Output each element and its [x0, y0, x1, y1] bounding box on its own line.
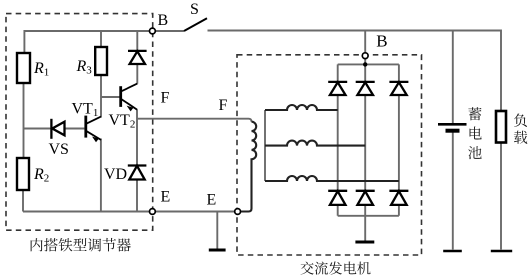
- ground between boxes: [209, 249, 226, 252]
- wire: rectifier top bus: [338, 63, 399, 65]
- wire: battery bottom lead: [452, 132, 454, 250]
- diode above VT2: [128, 51, 147, 64]
- wire: battery top drop: [452, 31, 454, 124]
- wire: F wire from VT2 emitter to field coil: [137, 119, 252, 122]
- wire: generator ground stub: [364, 216, 366, 241]
- generator dashed box 交流发电机: [237, 55, 422, 255]
- regulator dashed box 内搭铁型调节器: [6, 14, 153, 231]
- wire: zener right lead to VT1 base: [65, 128, 85, 130]
- node B generator terminal: [362, 53, 368, 59]
- svg-text:B: B: [376, 32, 387, 51]
- svg-text:S: S: [190, 1, 199, 18]
- wire: B terminal to rectifier bus: [364, 59, 366, 65]
- rectifier diode D2 top: [356, 82, 375, 95]
- wire: rectifier column 3: [398, 64, 400, 215]
- junction dot rectifier B: [363, 62, 367, 66]
- wire: zener left lead: [24, 128, 51, 130]
- wire: R1-R2 divider: [23, 83, 25, 158]
- node E generator terminal: [235, 209, 241, 215]
- svg-text:B: B: [158, 12, 169, 29]
- wire: E wire between boxes: [155, 211, 235, 213]
- resistor R2: [17, 158, 29, 190]
- wire: R3 bottom to VT1 collector: [100, 75, 102, 118]
- rectifier diode D4 bottom: [328, 191, 347, 205]
- label 内搭铁型调节器: [31, 238, 131, 252]
- wire: R3 top stub: [100, 31, 102, 47]
- wire: diode to VT2 collector: [136, 64, 138, 84]
- wire: regulator top rail: [24, 31, 149, 53]
- transistor VT1: [86, 116, 101, 143]
- rectifier diode D3 top: [389, 82, 408, 95]
- rectifier diode D6 bottom: [389, 191, 408, 205]
- stator phase 2 winding: [265, 141, 365, 146]
- load resistor 负载: [496, 111, 506, 143]
- wire: VT1 emitter down to E rail: [100, 139, 102, 212]
- rectifier diode D1 top: [328, 82, 347, 95]
- wire: B rail to diode anode column: [136, 31, 138, 51]
- wire: stator star bus: [264, 110, 266, 181]
- transistor VT2: [121, 84, 138, 112]
- wire: VT2 emitter down through VD to E rail: [136, 109, 138, 211]
- battery 蓄电池 plates: [438, 124, 467, 130]
- node E regulator terminal: [150, 209, 156, 215]
- svg-text:E: E: [161, 188, 171, 205]
- switch S blade: [184, 18, 207, 31]
- wire: load bottom lead: [500, 143, 502, 250]
- ground generator internal: [355, 241, 374, 244]
- node B regulator terminal: [150, 28, 156, 34]
- wire: switch left lead from B: [155, 30, 184, 32]
- ground load: [491, 250, 512, 253]
- svg-text:VD: VD: [104, 166, 127, 183]
- label 负载: [514, 114, 527, 144]
- wire: R2 bottom: [22, 190, 24, 212]
- wire: mid ground stub: [216, 212, 218, 249]
- diode VD: [128, 166, 147, 180]
- svg-text:F: F: [219, 97, 228, 114]
- ground battery: [443, 250, 462, 253]
- resistor R1: [17, 53, 30, 83]
- wire: VT2 base lead: [101, 96, 120, 98]
- wire: rectifier column 1: [337, 64, 339, 215]
- resistor R3: [95, 47, 107, 75]
- label 蓄电池: [468, 107, 481, 159]
- stator phase 1 winding: [265, 105, 338, 110]
- svg-text:E: E: [207, 192, 217, 209]
- stator phase 3 winding: [265, 176, 399, 181]
- wire: rectifier bottom bus: [338, 215, 399, 217]
- wire: regulator bottom E rail: [23, 211, 150, 213]
- wire: rectifier column 2: [364, 64, 366, 215]
- rectifier diode D5 bottom: [356, 191, 375, 205]
- zener diode VS: [51, 119, 64, 139]
- svg-text:VS: VS: [49, 141, 69, 158]
- svg-text:F: F: [161, 89, 170, 106]
- wire: main top B bus: [208, 31, 502, 112]
- label 交流发电机: [301, 261, 371, 274]
- wire: generator B drop: [364, 31, 366, 54]
- field coil rotor winding: [240, 122, 256, 212]
